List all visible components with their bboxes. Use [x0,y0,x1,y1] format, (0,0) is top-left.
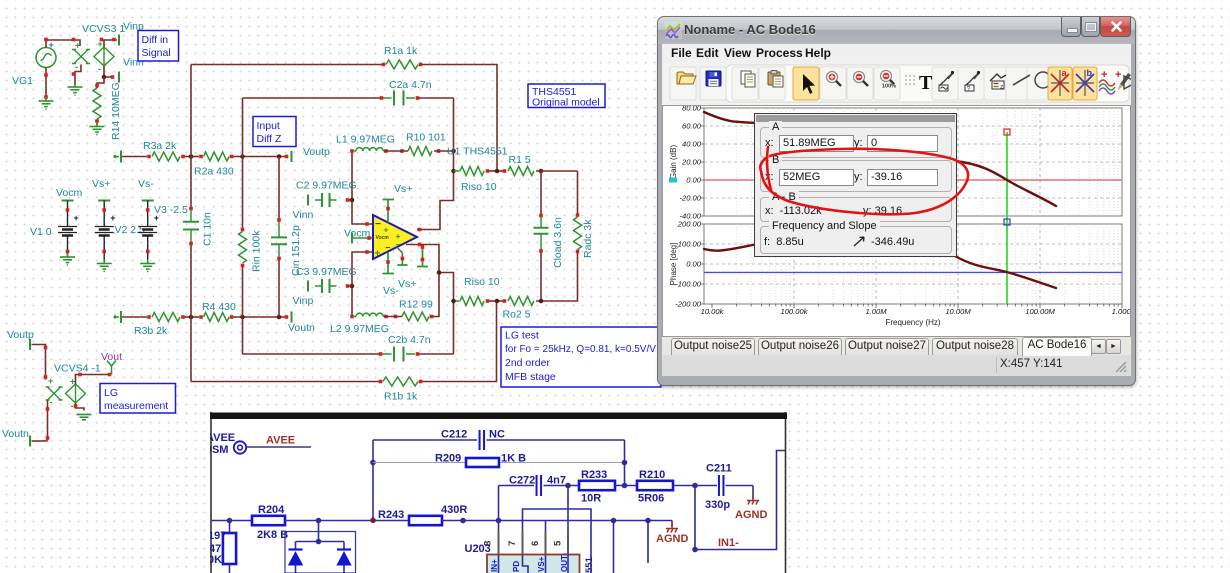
node junction Cload bottom [539,299,544,304]
node junction R1 out [539,169,544,174]
node Voutn terminal [291,312,293,323]
svg-text:Vs+: Vs+ [92,178,110,190]
svg-text:6: 6 [530,541,541,546]
svg-text:Voutn: Voutn [2,428,29,440]
resistor Riso 10 top [460,167,484,176]
wire PD stub [417,245,428,267]
svg-text:1.00G: 1.00G [1112,307,1130,316]
sheet border left [210,412,212,573]
wire branch 648 down [647,521,649,564]
wire bottom loop left [191,381,379,383]
wire R233 to R210 [615,485,637,487]
annotation box Diff in Signal [138,31,179,62]
svg-text:20.00: 20.00 [681,158,702,167]
blue phase cursor line [704,271,1122,273]
svg-text:Phase [deg]: Phase [deg] [669,243,678,286]
voltage source V2 2.5 (Vs+) [98,200,110,202]
connector AVEE [234,441,246,453]
svg-text:R4 430: R4 430 [202,301,236,313]
sheet border right [785,412,787,573]
input jack top [113,155,116,158]
paste icon [768,71,783,88]
svg-text:+: + [110,213,115,223]
wire VCVS3 X bottom to ground [75,65,81,86]
svg-text:Riso 10: Riso 10 [464,276,500,288]
capacitor C2a 4.7n [383,97,392,99]
node junction C2 [350,198,355,203]
svg-text:2nd order: 2nd order [505,357,550,369]
resistor R4 430 [199,315,203,319]
wire R1 to Radc [536,170,578,172]
svg-text:L1 9.97MEG: L1 9.97MEG [336,134,395,146]
wire R204 to R243 [285,520,409,522]
svg-text:R204: R204 [258,504,285,516]
wire pin8 vertical [498,486,500,532]
wire IN1- branch vertical [694,486,696,550]
svg-text:1.00M: 1.00M [865,307,887,316]
wire outer loop left vertical lower [190,245,192,382]
svg-text:C1 10n: C1 10n [202,212,214,246]
wire R243 row to AGND corner [442,520,672,522]
svg-text:Vout: Vout [101,351,122,363]
cursor tool selected [793,67,819,100]
resistor R210 5R06 [637,481,673,490]
node junction R10/C2a [451,149,456,154]
node C272/R233/pin5 [565,483,571,489]
svg-text:-100.00: -100.00 [675,280,702,289]
ground VCVS4 [77,415,92,420]
wire VCVS3 - to R14 [97,77,104,88]
svg-text:−: − [386,243,391,253]
diode network box [285,532,356,573]
zoom out [854,72,869,87]
svg-text:DSM: DSM [204,444,228,456]
resistor R1a 1k [386,60,418,69]
svg-text:1K B: 1K B [501,453,526,465]
svg-text:U203: U203 [465,543,491,555]
capacitor Cload 3.6n [540,217,542,227]
cursor values popup [754,113,957,257]
node junction Riso top [451,169,456,174]
node Voutn pickup terminal [29,436,31,447]
resistor Ro2 5 [508,297,534,306]
svg-text:V3 -2.5: V3 -2.5 [154,204,188,216]
svg-text:Vs-: Vs- [383,285,399,297]
wire VCVS3 output + to Vinp terminal [104,40,117,47]
svg-text:+: + [48,376,53,386]
blue cursor marker [1004,219,1010,225]
wire pin7 route [523,509,592,573]
resistor R1b 1k [383,377,418,386]
svg-text:C2a 4.7n: C2a 4.7n [389,79,432,91]
node row junction 613 [611,518,617,524]
wire R210 to C211 [673,485,717,487]
node Vinp terminal [118,35,120,46]
wire inner right vertical bottom [406,245,454,355]
svg-text:LG test: LG test [505,330,539,342]
wire X bottom to Voutn [47,401,49,441]
wire inner loop left vertical upper [242,98,244,228]
capacitor C1 10n [189,207,193,211]
wire C2b row right [416,352,420,356]
svg-text:z: z [1000,84,1003,91]
svg-text:+: + [1115,69,1121,81]
capacitor C2 9.97MEG [307,195,309,206]
svg-text:+: + [49,40,54,50]
wire inner loop left vertical lower [242,267,244,354]
wire minus input vertical top [352,151,372,224]
circle tool [1035,72,1051,88]
svg-text:0.00: 0.00 [686,260,702,269]
wire jack to R3b [122,316,147,318]
probe a [939,71,954,91]
node row junction diode branch [316,518,322,524]
resistor R3a 2k [152,152,180,161]
wire Cin vertical upper [278,157,280,219]
svg-text:Vocm: Vocm [376,235,390,241]
svg-text:R10 101: R10 101 [406,132,446,144]
svg-text:R12 99: R12 99 [399,299,433,311]
svg-text:430R: 430R [441,504,467,516]
svg-text:10R: 10R [581,493,601,505]
node Vout antenna [107,361,116,375]
svg-text:200.00: 200.00 [677,220,702,229]
minimize button [1061,17,1081,37]
svg-text:Radc 3k: Radc 3k [582,219,594,258]
annotation box THS4551 Original model [528,84,605,109]
svg-text:Vinp: Vinp [293,295,314,307]
svg-text:Cload 3.6n: Cload 3.6n [552,217,564,268]
gain curve [704,112,1056,206]
svg-text:+: + [75,41,80,51]
svg-text:AGND: AGND [735,509,767,521]
wire Riso bottom row [454,300,460,302]
svg-text:R2a 430: R2a 430 [194,166,234,178]
node junction Riso bottom [451,299,456,304]
IC U203 body [487,555,580,573]
node row junction 1 [227,518,233,524]
node C211 junction [692,483,698,489]
wire Vs- bottom stub [383,252,395,274]
svg-text:7: 7 [507,541,518,546]
wire VG1 top to VCVS3 input + [46,40,80,48]
wire VCVS4 to Vout antenna [76,375,109,385]
svg-text:OUT-: OUT- [560,553,569,572]
svg-text:Rin 100k: Rin 100k [251,230,263,272]
copy icon [741,71,755,87]
ground R14 [90,123,105,136]
svg-text:0K: 0K [208,554,222,566]
node junction feedback top [495,169,500,174]
svg-text:R209: R209 [435,453,461,465]
wire C212 feedback row [373,439,477,441]
wire C2b row left [243,353,380,355]
svg-text:NC: NC [489,429,505,441]
resistor R1 5 [508,167,534,176]
resistor R12 99 [402,312,429,321]
controlled source VCVS3 diamond [94,47,114,66]
resistor R204 2K8 B [252,516,285,525]
svg-text:Frequency (Hz): Frequency (Hz) [885,318,940,327]
save icon [706,71,721,86]
wire R12 to output node [433,274,439,317]
wire Riso top row [454,170,460,172]
legend tool [990,74,1006,91]
svg-text:-: - [98,64,101,74]
voltage source V1 0 (Vocm) [62,200,74,202]
svg-text:10.00k: 10.00k [701,307,725,316]
inductor L1 9.97MEG [354,150,356,152]
svg-text:Ro2 5: Ro2 5 [503,309,531,321]
capacitor Cin 151.2p [277,218,281,222]
power symbol AGND 1 [666,523,678,533]
wire branch 613 down [613,521,615,573]
svg-text:330p: 330p [705,499,730,511]
svg-text:VG1: VG1 [12,75,33,87]
wire diode tops [296,541,345,543]
inductor L2 9.97MEG [354,316,356,318]
major gridlines [704,108,1122,304]
svg-text:551: 551 [584,556,595,573]
svg-text:AVEE: AVEE [206,432,235,444]
svg-text:80.00: 80.00 [682,106,702,113]
green vertical cursor [1006,132,1008,304]
svg-text:C211: C211 [706,463,732,475]
svg-text:Vocm: Vocm [56,187,83,199]
wire R3a to node [185,156,200,158]
wire below left resistor [229,564,231,573]
svg-text:-: - [75,62,78,72]
wire Cin vertical lower [278,260,280,317]
wire left resistor branch [229,521,231,534]
wire to R1 [489,170,503,172]
curves tool [1099,69,1115,94]
wire R209 row [373,462,466,464]
annotation box LG measurement [100,384,176,414]
cursor a selected [1048,67,1072,100]
svg-text:Vs+: Vs+ [394,183,412,195]
svg-text:C2b 4.7n: C2b 4.7n [388,334,431,346]
grid faint icon [905,75,915,85]
diode D1 [289,548,303,550]
svg-text:AGND: AGND [656,533,688,545]
svg-text:+: + [384,225,389,235]
svg-text:100.00k: 100.00k [780,307,808,316]
phase plot frame [704,224,1122,304]
wire outer loop left vertical upper [190,65,192,208]
resistor R1xx vertical [223,533,236,564]
svg-text:VCVS3 1: VCVS3 1 [82,23,125,35]
wire jack to R3a [122,156,147,158]
node row junction R243 left [370,518,376,524]
capacitor C2b 4.7n [382,353,392,355]
node junction R3b/C1 [189,315,194,320]
resistor R243 430R [409,516,442,525]
open icon [677,72,696,84]
wire top loop left [191,64,382,66]
svg-text:Gain (dB): Gain (dB) [669,145,678,180]
resistor R233 10R [579,481,615,490]
svg-text:+: + [74,213,79,223]
svg-text:-200.00: -200.00 [675,300,702,309]
annotation box LG test [501,327,661,387]
svg-text:R3b 2k: R3b 2k [134,325,168,337]
wire VCVS3 output - to Vinn terminal [104,66,114,77]
wire R3b to node [185,316,200,318]
sheet top black bar [210,413,787,420]
node row junction 463 [460,518,466,524]
node row junction 648 [645,518,651,524]
svg-text:PD: PD [512,561,521,572]
wire R2a to Voutp stub [233,156,287,158]
svg-text:-: - [71,401,74,411]
wire C2a row left [243,97,381,99]
node junction R2a/Rin [240,154,245,159]
zoom in [827,72,842,87]
wire main row R204-R243 [211,520,252,522]
wire C2a row right [416,96,420,100]
resistor Radc 3k [574,217,582,250]
svg-text:R1b 1k: R1b 1k [384,391,418,403]
wire IN1- route [695,451,786,550]
svg-text:R233: R233 [581,469,607,481]
slope tool [1124,76,1137,89]
cyan axis marker [669,178,677,183]
wire VG1 bottom to ground [45,68,47,101]
VCVS3 input port X symbol [72,50,90,64]
wire pin6 vertical [545,521,547,532]
svg-text:Input: Input [257,120,280,132]
resistor Riso 10 bottom [460,297,484,306]
svg-text:100%: 100% [882,84,896,90]
svg-text:V1 0: V1 0 [30,226,52,238]
svg-text:2K8 B: 2K8 B [257,529,288,541]
svg-text:VS+: VS+ [537,556,546,572]
controlled source VCVS4 diamond [66,384,86,403]
node IN1- junction [692,547,698,553]
node row junction pin8 [496,518,502,524]
svg-text:Vs-: Vs- [138,178,154,190]
wire top loop right [419,63,423,67]
svg-text:−: − [375,219,381,230]
svg-text:LG: LG [104,387,118,399]
svg-text:-: - [50,397,53,407]
wire bottom loop right [419,380,423,384]
svg-text:197: 197 [208,530,226,542]
svg-text:+: + [70,377,75,387]
resistor R3b 2k [152,313,180,322]
wire Vocm stub [351,233,353,244]
svg-text:R1a 1k: R1a 1k [384,45,418,57]
zoom 100% [881,71,897,90]
gain plot frame [704,108,1122,216]
svg-text:T: T [919,72,933,94]
svg-text:measurement: measurement [104,400,168,412]
node junction output bottom [437,270,442,275]
wire left feedback vertical [372,440,374,520]
svg-text:40.00: 40.00 [682,140,702,149]
svg-text:+: + [1101,69,1107,81]
power symbol AGND 2 [747,495,759,505]
svg-text:4n7: 4n7 [547,475,566,487]
wire C211 to AGND [726,485,754,487]
red annotation ellipse [740,109,990,279]
svg-text:b: b [1087,68,1093,78]
capacitor C3 9.97MEG [307,281,309,292]
node Vinn terminal [118,72,120,83]
red cursor marker [1004,129,1010,135]
wire Voutn link [32,440,48,442]
svg-text:60.00: 60.00 [682,122,702,131]
svg-text:U1 THS4551: U1 THS4551 [447,146,508,158]
node R233/R210/C212 [622,483,628,489]
svg-text:100.00: 100.00 [678,240,702,249]
wire AVEE stub [247,446,312,448]
node R209 right [622,460,628,466]
resistor R209 1K B [466,458,499,467]
red 0dB cursor line [704,179,1122,181]
wire inner right vertical top [417,98,454,230]
voltage source V3 -2.5 (Vs-) [142,200,154,202]
wire diode branch vertical [318,521,320,542]
svg-text:0.00: 0.00 [686,176,702,185]
wire R10 to node [434,150,454,152]
node junction Cin top [277,154,282,159]
svg-text:for Fo = 25kHz, Q=0.81, k=0.5V: for Fo = 25kHz, Q=0.81, k=0.5V/V [505,344,656,355]
wire AGND drop [671,521,673,528]
node R209 left [370,460,376,466]
svg-text:C272: C272 [509,475,535,487]
pasted schematic sheet background [210,412,787,573]
svg-text:C212: C212 [441,429,467,441]
svg-text:VCVS4 -1: VCVS4 -1 [54,363,101,375]
svg-text:5: 5 [553,540,564,546]
svg-text:Vs+: Vs+ [398,278,416,290]
svg-text:?: ? [967,86,971,93]
node junction feedback bottom [495,299,500,304]
svg-text:Diff in: Diff in [142,34,169,46]
x axis labels [701,307,1133,316]
resistor Rin 100k [241,228,245,232]
window icon [665,22,682,39]
svg-text:Voutn: Voutn [288,322,315,334]
svg-text:AVEE: AVEE [266,435,295,447]
wire VCVS4 bottom to ground [76,403,85,411]
node junction R3a/C1 [189,154,194,159]
svg-text:V2 2.5: V2 2.5 [115,224,146,236]
annotation box Input Diff Z [253,117,296,147]
toolbar group panel [726,65,1129,102]
node Voutp pickup terminal [29,339,31,350]
svg-text:R210: R210 [639,469,665,481]
resistor R10 101 [408,147,432,156]
wire R4 to Voutn stub [233,316,287,318]
svg-text:Original model: Original model [532,97,600,109]
svg-text:Vinn: Vinn [293,209,314,221]
maximize button [1081,17,1100,37]
svg-text:C2 9.97MEG: C2 9.97MEG [296,180,357,192]
node junction Cin bottom [277,315,282,320]
input jack bottom [113,315,116,318]
wire Cload branch bottom [540,253,542,302]
voltage generator VG1 [36,48,56,68]
cursor b selected [1073,67,1097,100]
wire L2 to R12 [384,316,403,318]
pen tool [1115,69,1131,90]
svg-text:R14 10MEG: R14 10MEG [110,82,122,140]
svg-text:MFB stage: MFB stage [505,371,556,383]
svg-text:C3 9.97MEG: C3 9.97MEG [296,266,357,278]
